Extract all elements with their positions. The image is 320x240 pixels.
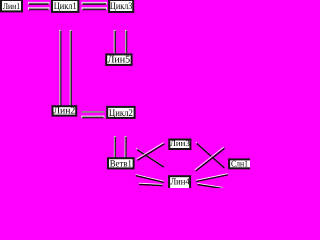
- wire H2 Cikl1-Cikl3 bar 2: [82, 7, 107, 10]
- wire H3 Lin2-Cikl2 bar 1: [82, 111, 105, 113]
- svg-text:Лин2: Лин2: [53, 106, 75, 117]
- node Lin5: [106, 54, 131, 65]
- node Lin3: [169, 138, 190, 149]
- svg-text:Лин1: Лин1: [3, 1, 20, 11]
- wire end highlight caps: [28, 2, 107, 118]
- node Vetv1: [108, 158, 134, 169]
- node Lin1: [1, 0, 22, 11]
- svg-text:Лин5: Лин5: [108, 54, 131, 65]
- svg-text:Цикл3: Цикл3: [110, 1, 133, 12]
- svg-text:Слн1: Слн1: [231, 159, 248, 169]
- wire V1 Cikl1-Lin2 right line: [70, 30, 72, 106]
- wire V3 Cikl2-Vetv1 left line: [114, 136, 116, 158]
- node Sln1: [229, 159, 251, 169]
- wire X4 Lin4-Sln1 upper line: [196, 174, 228, 182]
- node Cikl3: [109, 0, 133, 12]
- node Cikl1: [52, 0, 78, 12]
- node Lin2: [53, 106, 77, 117]
- wire V3 Cikl2-Vetv1 right line: [124, 136, 126, 158]
- node Lin4: [169, 176, 190, 189]
- wire X3 Vetv1-Lin4 lower line: [139, 183, 163, 185]
- svg-text:Цикл1: Цикл1: [54, 1, 77, 12]
- wire V2 Cikl3-Lin5 left line: [114, 30, 116, 53]
- wire H3 Lin2-Cikl2 bar 2: [81, 116, 104, 119]
- wire H2 Cikl1-Cikl3 bar 1: [82, 2, 107, 5]
- svg-text:Лин3: Лин3: [170, 138, 190, 148]
- svg-text:Ветв1: Ветв1: [110, 160, 132, 170]
- wire V1 Cikl1-Lin2 left line: [59, 30, 61, 106]
- wire X1 Vetv1-Lin3 ascending line: [136, 143, 164, 161]
- wire H1 Lin1-Cikl1 bar 2: [28, 7, 49, 10]
- wire X1 Vetv1-Lin3 descending line: [136, 148, 164, 167]
- wire X2 Lin3-Sln1 descending line: [196, 142, 225, 168]
- wire X4 Lin4-Sln1 lower line: [197, 183, 223, 188]
- svg-text:Лин4: Лин4: [170, 178, 190, 188]
- wire X3 Vetv1-Lin4 upper line: [136, 175, 164, 183]
- node Cikl2: [107, 107, 134, 119]
- wire H1 Lin1-Cikl1 bar 1: [28, 2, 49, 5]
- wire V2 Cikl3-Lin5 right line: [125, 30, 127, 53]
- wire X2 Lin3-Sln1 ascending line: [195, 147, 225, 171]
- svg-text:Цикл2: Цикл2: [109, 108, 133, 119]
